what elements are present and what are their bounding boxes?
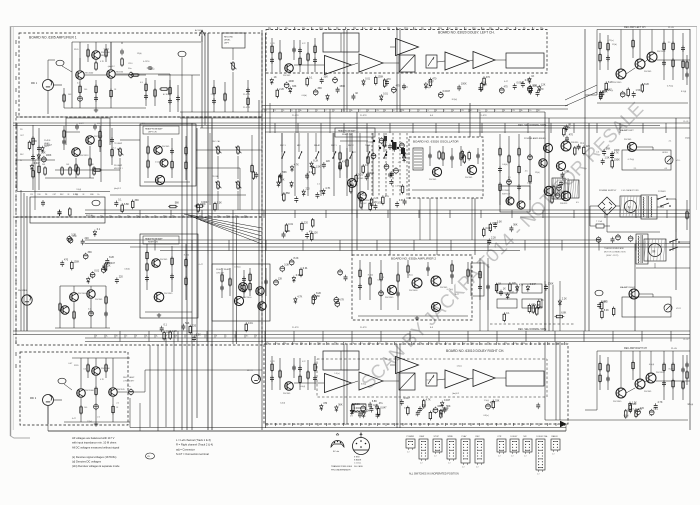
oscillator coil bbox=[413, 148, 423, 170]
power amp transistor Q307 bbox=[544, 186, 554, 196]
dolby out block right bbox=[506, 371, 544, 386]
svg-text:L: L bbox=[517, 28, 518, 30]
svg-text:8.2K: 8.2K bbox=[313, 160, 318, 163]
ma amp left label bbox=[620, 129, 634, 132]
dolby box trunk verticals bbox=[344, 28, 400, 428]
svg-text:LEFT CH.: LEFT CH. bbox=[148, 132, 157, 134]
svg-text:4.7K: 4.7K bbox=[297, 295, 302, 298]
svg-text:PB: PB bbox=[343, 110, 345, 112]
svg-text:1.5(s): 1.5(s) bbox=[457, 366, 462, 368]
amplif box bbox=[30, 197, 105, 223]
transistor Q111 bbox=[234, 296, 252, 305]
svg-text:0.047: 0.047 bbox=[486, 227, 493, 230]
svg-text:0.01: 0.01 bbox=[399, 199, 404, 202]
svg-text:(100V - 117V): (100V - 117V) bbox=[606, 255, 619, 257]
right mid switch cluster bbox=[563, 123, 591, 156]
svg-text:1 2: 1 2 bbox=[552, 454, 555, 456]
svg-text:CL-02: CL-02 bbox=[683, 339, 689, 341]
dolby right pin row bottom bbox=[267, 423, 568, 426]
svg-text:(dm)3.2: (dm)3.2 bbox=[360, 203, 368, 205]
svg-text:L = Left channel (Track 1 & 3: L = Left channel (Track 1 & 3) bbox=[176, 438, 211, 442]
rec amp right bottom parts bbox=[625, 401, 663, 419]
svg-text:2SC945: 2SC945 bbox=[283, 75, 291, 77]
svg-text:47u: 47u bbox=[379, 402, 384, 405]
dolby op amp D right bbox=[473, 370, 495, 387]
transistor Q110 bbox=[154, 292, 173, 302]
svg-text:2SC945: 2SC945 bbox=[162, 146, 170, 148]
right edge parts top bbox=[685, 55, 689, 85]
amp2 columns bbox=[358, 260, 469, 310]
svg-text:1K: 1K bbox=[274, 76, 277, 79]
svg-text:0.75(s): 0.75(s) bbox=[234, 267, 241, 269]
transistor Q109 bbox=[152, 259, 168, 268]
legend oval bbox=[146, 453, 155, 459]
svg-text:C.05 CAPACITORS: C.05 CAPACITORS bbox=[621, 189, 639, 192]
svg-text:4.7K: 4.7K bbox=[294, 163, 299, 166]
headphone amp label mid bbox=[335, 128, 375, 137]
svg-text:0.75(s): 0.75(s) bbox=[447, 289, 454, 291]
bottom left verticals bbox=[150, 331, 174, 431]
svg-text:8.2(d): 8.2(d) bbox=[425, 87, 431, 89]
svg-text:(dm)3.2: (dm)3.2 bbox=[452, 393, 460, 395]
svg-text:E: E bbox=[176, 336, 177, 338]
svg-text:BOARD NO. 6305 AMPLIFIER 1: BOARD NO. 6305 AMPLIFIER 1 bbox=[29, 36, 77, 40]
dolby input transistor right bbox=[283, 382, 293, 395]
svg-text:1.5(s): 1.5(s) bbox=[527, 183, 532, 185]
switch table POWER bbox=[406, 436, 415, 454]
svg-text:2SC945: 2SC945 bbox=[624, 139, 632, 141]
dolby op amp A left bbox=[325, 56, 352, 75]
svg-text:12K: 12K bbox=[314, 231, 319, 234]
svg-text:E: E bbox=[385, 110, 386, 112]
svg-text:470: 470 bbox=[604, 300, 609, 303]
svg-text:0.01: 0.01 bbox=[303, 267, 308, 270]
headphone amp left label bbox=[143, 126, 179, 134]
svg-text:1 2: 1 2 bbox=[434, 456, 437, 458]
svg-text:0.0047: 0.0047 bbox=[517, 81, 525, 84]
svg-text:0.6(d): 0.6(d) bbox=[302, 95, 308, 97]
mic2 jack J102 bbox=[30, 395, 62, 425]
headphone mid strings bbox=[338, 141, 370, 210]
switch linkage parts bbox=[371, 137, 406, 194]
bottom rails bbox=[48, 398, 566, 431]
svg-text:33K: 33K bbox=[324, 76, 329, 79]
svg-text:1 2: 1 2 bbox=[462, 467, 465, 469]
svg-text:0.47/50: 0.47/50 bbox=[143, 61, 149, 63]
svg-text:0.047: 0.047 bbox=[34, 162, 41, 165]
switch matrix labels bbox=[280, 144, 388, 147]
svg-text:56K: 56K bbox=[338, 403, 343, 406]
svg-text:PB: PB bbox=[406, 28, 408, 30]
svg-text:MIC 1: MIC 1 bbox=[31, 83, 38, 85]
svg-text:L: L bbox=[532, 343, 533, 345]
svg-text:2SC1313: 2SC1313 bbox=[80, 155, 89, 157]
svg-text:150K: 150K bbox=[339, 85, 345, 88]
svg-text:E: E bbox=[256, 336, 257, 338]
dolby input transistor left bbox=[283, 64, 293, 77]
svg-text:REC CAL: REC CAL bbox=[212, 140, 220, 143]
svg-text:L: L bbox=[398, 28, 399, 30]
svg-text:(dm)3.2: (dm)3.2 bbox=[114, 188, 122, 190]
amp1 out coupling bbox=[144, 74, 170, 106]
svg-text:12K: 12K bbox=[541, 83, 546, 86]
test point oval amp1 bbox=[56, 60, 72, 72]
board 63010 dolby right label bbox=[446, 349, 504, 353]
board 63020 dolby left dashed box bbox=[266, 30, 547, 74]
svg-text:CIRCUIT: CIRCUIT bbox=[216, 273, 225, 275]
svg-text:2.2K: 2.2K bbox=[562, 298, 567, 301]
power switch box bbox=[500, 186, 530, 212]
svg-text:E EMI: E EMI bbox=[354, 457, 360, 459]
dolby input parts right bbox=[270, 356, 317, 390]
playback eq resistor row bbox=[42, 164, 95, 178]
svg-text:E: E bbox=[453, 110, 454, 112]
record level wire bbox=[230, 48, 236, 112]
svg-text:MIN R21 1: MIN R21 1 bbox=[114, 168, 123, 170]
transistor Q103 bbox=[107, 70, 124, 79]
rec amp left diag wires bbox=[565, 85, 597, 106]
svg-text:12K: 12K bbox=[326, 160, 331, 163]
svg-text:2SC945: 2SC945 bbox=[465, 177, 473, 179]
svg-text:1.77K: 1.77K bbox=[270, 43, 275, 45]
switch table WIND bbox=[447, 436, 456, 465]
svg-text:470: 470 bbox=[72, 235, 77, 238]
scan page edge right bbox=[696, 27, 698, 210]
power trans hatched box B bbox=[568, 180, 579, 198]
amp2 left cluster bbox=[274, 257, 348, 307]
svg-text:0.75(s): 0.75(s) bbox=[402, 86, 409, 88]
svg-text:B+: B+ bbox=[438, 424, 440, 426]
svg-text:6.8(s): 6.8(s) bbox=[407, 275, 412, 277]
svg-text:REC AMP LEFT CH: REC AMP LEFT CH bbox=[624, 26, 646, 29]
svg-text:220: 220 bbox=[304, 221, 309, 224]
svg-text:0.01: 0.01 bbox=[94, 270, 99, 273]
svg-text:12(d): 12(d) bbox=[137, 53, 142, 55]
board 63020 dolby left label bbox=[438, 31, 495, 35]
top mid connector labels bbox=[292, 115, 487, 117]
svg-text:B BASE: B BASE bbox=[354, 459, 362, 462]
bus stub drops low bbox=[120, 331, 671, 342]
svg-text:2SC1000: 2SC1000 bbox=[409, 290, 418, 292]
svg-text:4.7K: 4.7K bbox=[339, 299, 344, 302]
svg-text:(dm)3.2: (dm)3.2 bbox=[108, 66, 116, 68]
dolby limiter right bbox=[399, 373, 415, 390]
board 63026 oscillator label bbox=[413, 140, 459, 144]
svg-text:RECORD: RECORD bbox=[224, 37, 234, 39]
power sw transistor Q305 bbox=[506, 197, 514, 205]
bl resistors bbox=[80, 358, 115, 422]
transistor Q106 bbox=[154, 146, 170, 155]
svg-text:1K: 1K bbox=[531, 75, 534, 78]
svg-text:6TR: 6TR bbox=[498, 436, 502, 438]
svg-text:56K: 56K bbox=[282, 171, 287, 174]
svg-text:2SC1345: 2SC1345 bbox=[613, 82, 622, 84]
svg-text:12(d): 12(d) bbox=[87, 421, 92, 423]
dolby limiter left bbox=[399, 55, 415, 72]
svg-text:B+: B+ bbox=[540, 424, 542, 426]
svg-text:E: E bbox=[270, 28, 271, 30]
dolby big amp right bbox=[396, 357, 419, 374]
svg-text:2SC1000: 2SC1000 bbox=[78, 293, 87, 295]
svg-text:E: E bbox=[196, 336, 197, 338]
svg-text:PL-8TR: PL-8TR bbox=[360, 115, 367, 117]
power amp transistor Q302 bbox=[561, 141, 579, 151]
svg-text:0.6(d): 0.6(d) bbox=[502, 164, 508, 166]
motor M2 bbox=[644, 239, 666, 261]
transformer motor label box bbox=[604, 247, 626, 257]
psu wires bbox=[590, 199, 676, 243]
svg-text:PB: PB bbox=[402, 110, 404, 112]
svg-text:470: 470 bbox=[396, 85, 401, 88]
svg-text:0.75(s): 0.75(s) bbox=[628, 159, 635, 161]
svg-text:3.3K: 3.3K bbox=[284, 264, 289, 267]
power amp transistor Q301 bbox=[544, 144, 553, 153]
svg-text:E: E bbox=[129, 216, 130, 218]
svg-text:B+: B+ bbox=[479, 110, 481, 112]
svg-text:PB: PB bbox=[515, 343, 517, 345]
osc output row bbox=[360, 195, 411, 211]
switch dark contacts bbox=[373, 136, 405, 156]
svg-text:56K: 56K bbox=[446, 405, 451, 408]
svg-text:REC / LAMP: REC / LAMP bbox=[123, 376, 135, 379]
svg-text:E: E bbox=[489, 343, 490, 345]
svg-text:RELAY: RELAY bbox=[314, 144, 321, 147]
svg-text:150K: 150K bbox=[74, 260, 80, 263]
svg-text:0.6(d): 0.6(d) bbox=[300, 386, 306, 388]
trunk emphasis bbox=[208, 33, 212, 430]
svg-text:0.0047: 0.0047 bbox=[443, 90, 451, 93]
amp2 bottom rail bbox=[358, 316, 468, 320]
svg-text:2.2K: 2.2K bbox=[362, 194, 367, 197]
bus pin row mid left bbox=[92, 215, 248, 218]
switch table 6TR bbox=[497, 436, 506, 458]
svg-text:L: L bbox=[445, 110, 446, 112]
amp1 bias resistors bbox=[87, 44, 124, 71]
transistor Q104 bbox=[86, 136, 104, 145]
amp1 ground rail bbox=[64, 42, 146, 112]
svg-text:R105: R105 bbox=[74, 49, 79, 51]
svg-text:470: 470 bbox=[64, 259, 69, 262]
ma amp right parts bbox=[597, 300, 615, 319]
transistor Q108 bbox=[155, 175, 164, 184]
svg-text:B+: B+ bbox=[156, 336, 158, 338]
svg-text:8.2K: 8.2K bbox=[604, 309, 609, 312]
amp1 emitter network bbox=[63, 79, 113, 108]
transistor Q407 bbox=[646, 372, 665, 383]
svg-text:12(d): 12(d) bbox=[280, 403, 285, 405]
svg-text:L: L bbox=[313, 28, 314, 30]
svg-text:8.2(d): 8.2(d) bbox=[73, 194, 79, 196]
svg-text:6.8(s): 6.8(s) bbox=[624, 415, 629, 417]
svg-text:0.22: 0.22 bbox=[302, 361, 306, 363]
switch table note bbox=[409, 473, 459, 476]
svg-text:2.2K: 2.2K bbox=[373, 197, 378, 200]
svg-text:POWER: POWER bbox=[407, 436, 415, 438]
svg-text:RIGHT / REAR: RIGHT / REAR bbox=[216, 268, 230, 271]
svg-text:B+: B+ bbox=[304, 28, 306, 30]
svg-text:E: E bbox=[353, 424, 354, 426]
svg-text:4.7K: 4.7K bbox=[325, 187, 330, 190]
svg-text:8.2K: 8.2K bbox=[644, 83, 649, 86]
power amp label bbox=[524, 137, 546, 140]
svg-text:0.027: 0.027 bbox=[79, 123, 84, 125]
svg-text:PL-05: PL-05 bbox=[671, 348, 678, 350]
switch table STOP bbox=[433, 436, 442, 458]
dolby left pin row top bbox=[269, 27, 544, 30]
svg-text:STOP: STOP bbox=[434, 436, 440, 438]
transistor package view2 bbox=[353, 433, 370, 468]
amp2 right loop bbox=[471, 263, 484, 296]
svg-text:E: E bbox=[372, 28, 373, 30]
svg-text:B+: B+ bbox=[521, 110, 523, 112]
svg-text:OUT: OUT bbox=[53, 194, 57, 196]
svg-text:470: 470 bbox=[486, 76, 491, 79]
rear circuit parts bbox=[220, 268, 268, 298]
rec amp right top rail bbox=[597, 350, 690, 352]
svg-text:PB: PB bbox=[430, 343, 432, 345]
svg-text:2SC945: 2SC945 bbox=[160, 259, 168, 261]
svg-text:R = Right channel (Track 2 & 4: R = Right channel (Track 2 & 4) bbox=[176, 443, 213, 447]
svg-text:56K: 56K bbox=[185, 322, 190, 325]
transistor Q503 bbox=[431, 302, 440, 311]
svg-text:ALL SWITCHES IN UNOPERATED: ALL SWITCHES IN UNOPERATED POSITION bbox=[409, 473, 459, 476]
svg-text:470: 470 bbox=[387, 78, 392, 81]
svg-text:390: 390 bbox=[97, 123, 100, 125]
transistor Q115 bbox=[109, 388, 126, 397]
svg-text:E: E bbox=[302, 343, 303, 345]
svg-text:REC: REC bbox=[476, 436, 481, 438]
svg-text:0.22: 0.22 bbox=[302, 43, 306, 45]
svg-text:PB CAL: PB CAL bbox=[212, 175, 219, 178]
bl out wires bbox=[118, 370, 262, 396]
monitor dashed bbox=[490, 323, 575, 325]
board 6305 amplifier1 dashed box bbox=[19, 33, 262, 117]
svg-text:REC 3: REC 3 bbox=[280, 145, 286, 147]
svg-text:100K: 100K bbox=[461, 83, 467, 86]
headphone amp right label bbox=[143, 236, 179, 244]
transformer T2 bbox=[636, 234, 648, 264]
headphone right parts bbox=[145, 244, 192, 317]
rec amp left wires bbox=[585, 30, 690, 104]
rear circuit box bbox=[212, 264, 270, 321]
transistor Q502 bbox=[431, 276, 448, 289]
svg-text:100K: 100K bbox=[46, 154, 52, 157]
svg-text:2SC1345: 2SC1345 bbox=[164, 293, 173, 295]
scan page edge top bbox=[10, 26, 697, 28]
dolby right coil bbox=[352, 404, 366, 412]
bottom left dashed box bbox=[20, 352, 128, 425]
svg-text:T 1.5A: T 1.5A bbox=[596, 220, 603, 223]
transistor Q122 bbox=[61, 306, 69, 314]
svg-text:RADIO: RADIO bbox=[552, 435, 559, 438]
svg-text:with input impedance min. 10 M: with input impedance min. 10 M ohms bbox=[72, 441, 117, 445]
power amp transistor Q304 bbox=[556, 161, 565, 170]
amp1 coupling network bbox=[128, 61, 200, 112]
dolby op amp D left bbox=[473, 52, 495, 69]
dolby chain wires left bbox=[294, 33, 506, 65]
watermark SCAN BY JACKPA T014 NOT FOR RESALE bbox=[357, 98, 647, 393]
svg-text:2.2K: 2.2K bbox=[491, 237, 496, 240]
right label cl bbox=[683, 121, 689, 341]
ma amp right cluster bbox=[595, 286, 681, 317]
voltage annotations bbox=[68, 40, 693, 423]
svg-text:47u: 47u bbox=[638, 408, 643, 411]
svg-text:PB: PB bbox=[321, 28, 323, 30]
switch table REW bbox=[419, 436, 428, 465]
svg-text:220: 220 bbox=[85, 237, 90, 240]
svg-text:1.5K: 1.5K bbox=[316, 166, 321, 169]
dolby left pin row bottom bbox=[265, 109, 541, 112]
headphone left parts bbox=[144, 136, 190, 182]
svg-text:PB: PB bbox=[294, 424, 296, 426]
rec amp left label bbox=[624, 26, 675, 29]
svg-text:0.0047: 0.0047 bbox=[44, 144, 52, 147]
legend text left bbox=[72, 436, 120, 468]
mid right v wires bbox=[545, 281, 560, 420]
playback eq caps bbox=[75, 123, 100, 130]
dolby op amp B left bbox=[359, 54, 383, 72]
headphone amp right box bbox=[140, 234, 198, 318]
svg-text:BOARD NO. 63020 DOLBY. LE: BOARD NO. 63020 DOLBY. LEFT CH. bbox=[438, 31, 495, 35]
svg-text:6.8(s): 6.8(s) bbox=[378, 280, 383, 282]
svg-text:33K: 33K bbox=[318, 87, 323, 90]
transistor Q102 bbox=[76, 71, 94, 80]
svg-text:REC 2: REC 2 bbox=[348, 145, 354, 147]
switch table PLAY bbox=[461, 435, 470, 469]
svg-text:2SC945: 2SC945 bbox=[117, 389, 125, 391]
svg-text:6.8(s): 6.8(s) bbox=[361, 384, 366, 386]
tr lamp pot bbox=[114, 142, 123, 182]
left lower bottom cluster bbox=[160, 322, 254, 342]
svg-text:470: 470 bbox=[319, 190, 324, 193]
rec amp left columns bbox=[599, 30, 685, 81]
svg-text:REC. SEL NORMAL TAPE: REC. SEL NORMAL TAPE bbox=[518, 328, 547, 331]
svg-text:1.5K: 1.5K bbox=[605, 157, 610, 160]
svg-text:B+: B+ bbox=[491, 28, 493, 30]
mid small cluster A bbox=[282, 218, 319, 241]
svg-text:C15: C15 bbox=[30, 194, 33, 196]
svg-text:100K: 100K bbox=[548, 282, 554, 285]
dolby left bottom rails bbox=[262, 106, 568, 110]
left lower input parts bbox=[60, 228, 123, 284]
svg-text:470: 470 bbox=[569, 134, 574, 137]
svg-text:4.7K: 4.7K bbox=[490, 401, 495, 404]
transistor Q113 bbox=[92, 367, 111, 376]
rec amp right wires bbox=[545, 351, 690, 420]
svg-text:RIGHT CH.: RIGHT CH. bbox=[148, 242, 159, 244]
svg-text:0.75(s): 0.75(s) bbox=[667, 86, 674, 88]
svg-text:PL-8TR: PL-8TR bbox=[292, 327, 299, 329]
svg-text:12K: 12K bbox=[586, 145, 591, 148]
svg-text:8.2(d): 8.2(d) bbox=[669, 369, 675, 371]
rec amp right label bbox=[624, 347, 678, 350]
svg-text:L: L bbox=[525, 28, 526, 30]
transistor Q121 bbox=[87, 290, 103, 301]
dolby var element left bbox=[426, 55, 437, 68]
svg-text:6.8(s): 6.8(s) bbox=[484, 415, 489, 417]
switch table REC bbox=[475, 436, 484, 469]
svg-text:All voltages are balanced with: All voltages are balanced with 117 V bbox=[72, 436, 115, 440]
test oval TP2 bbox=[178, 51, 186, 112]
psu2 switch bbox=[669, 239, 690, 251]
svg-text:100: 100 bbox=[84, 89, 87, 91]
svg-text:VU R: VU R bbox=[676, 308, 681, 310]
svg-text:150K: 150K bbox=[378, 75, 384, 78]
svg-text:100: 100 bbox=[84, 407, 87, 409]
svg-text:PB: PB bbox=[370, 424, 372, 426]
rec right lamp label bbox=[123, 376, 135, 383]
bus wires lower bbox=[13, 331, 690, 342]
